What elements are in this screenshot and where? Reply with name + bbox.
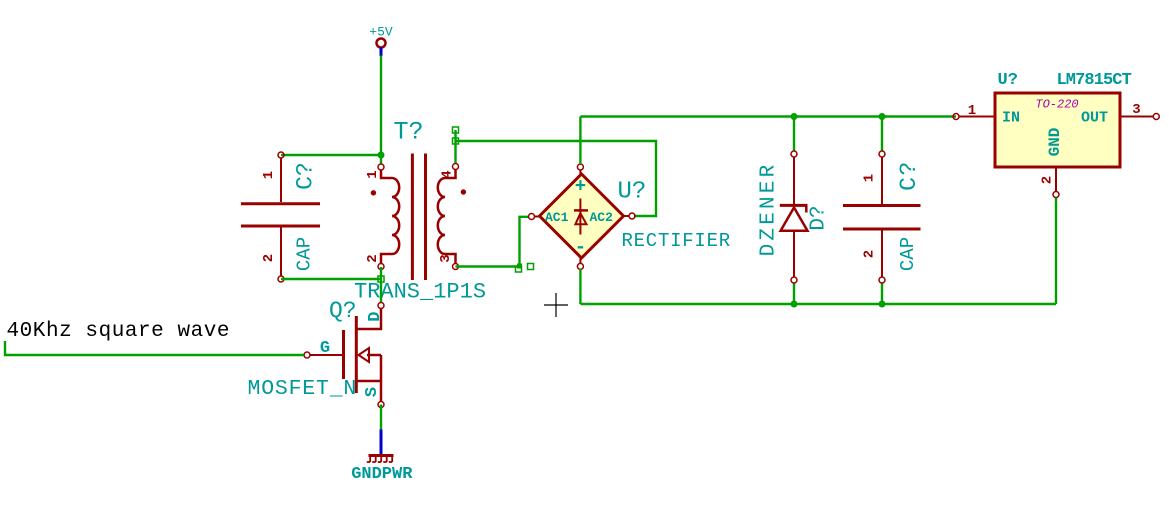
wire bottom rail bbox=[580, 303, 1056, 305]
wire top rail bbox=[580, 115, 956, 117]
wire end square at pin2 column bbox=[378, 276, 384, 282]
wire bottom rail to U2 GND bbox=[1055, 197, 1057, 304]
wire top rail to C2 bbox=[881, 117, 883, 152]
wire Q1 source to ground bbox=[380, 405, 382, 430]
svg-text:T?: T? bbox=[394, 118, 424, 147]
svg-text:3: 3 bbox=[1132, 102, 1140, 118]
wire rectifier - down to bottom rail bbox=[579, 269, 581, 304]
svg-text:2: 2 bbox=[1040, 176, 1056, 184]
svg-text:C?: C? bbox=[293, 162, 319, 190]
wire node A to C1 top bbox=[281, 154, 381, 156]
svg-text:TO-220: TO-220 bbox=[1035, 98, 1078, 112]
wire T1 pin3 to AC1 bbox=[456, 217, 529, 267]
wire top rail to D1 bbox=[793, 117, 795, 152]
svg-text:2: 2 bbox=[365, 254, 381, 262]
svg-text:1: 1 bbox=[261, 171, 277, 179]
wire end square below AC1 corner bbox=[516, 266, 522, 272]
svg-text:AC2: AC2 bbox=[590, 210, 614, 225]
svg-text:2: 2 bbox=[862, 250, 878, 258]
capacitor C1 bbox=[241, 152, 320, 282]
capacitor C2 bbox=[843, 151, 922, 283]
wire rectifier + up to top rail bbox=[579, 117, 581, 165]
svg-text:1: 1 bbox=[968, 103, 976, 119]
wire C2 to bottom rail bbox=[881, 283, 883, 304]
svg-text:LM7815CT: LM7815CT bbox=[1057, 71, 1132, 90]
svg-text:U?: U? bbox=[618, 179, 647, 206]
junction top rail / D1 bbox=[791, 113, 798, 120]
svg-text:D?: D? bbox=[808, 205, 831, 230]
junction bottom rail / C2 bbox=[879, 301, 886, 308]
svg-text:2: 2 bbox=[261, 254, 277, 262]
regulator U2 LM7815CT bbox=[953, 71, 1159, 198]
transformer T1 bbox=[354, 118, 486, 305]
svg-text:+5V: +5V bbox=[369, 25, 393, 40]
wire T1 pin4 to AC2 (top run) bbox=[456, 141, 657, 216]
svg-text:DZENER: DZENER bbox=[758, 162, 781, 257]
power flag +5V bbox=[369, 25, 393, 57]
svg-text:OUT: OUT bbox=[1081, 110, 1108, 127]
svg-text:RECTIFIER: RECTIFIER bbox=[622, 230, 731, 252]
svg-text:GNDPWR: GNDPWR bbox=[351, 465, 413, 484]
svg-text:-: - bbox=[575, 237, 586, 259]
svg-text:IN: IN bbox=[1002, 110, 1020, 127]
node A junction bbox=[378, 152, 385, 159]
svg-text:40Khz square wave: 40Khz square wave bbox=[7, 320, 231, 343]
svg-text:CAP: CAP bbox=[294, 237, 316, 271]
cursor crosshair bbox=[544, 293, 568, 317]
svg-text:TRANS_1P1S: TRANS_1P1S bbox=[354, 280, 486, 305]
transistor Q1 MOSFET_N bbox=[248, 298, 385, 408]
wire end square pin4 mid bbox=[453, 138, 459, 144]
svg-text:AC1: AC1 bbox=[545, 210, 569, 225]
svg-text:1: 1 bbox=[365, 170, 381, 178]
wire T1 pin2 to Q1 drain bbox=[380, 267, 382, 303]
svg-text:+: + bbox=[575, 176, 586, 198]
svg-text:4: 4 bbox=[440, 170, 456, 178]
wire D1 to bottom rail bbox=[793, 283, 795, 304]
zener diode D1 bbox=[758, 151, 831, 283]
wire input to Q1 gate bbox=[5, 341, 304, 355]
svg-text:MOSFET_N: MOSFET_N bbox=[248, 377, 358, 401]
svg-text:S: S bbox=[363, 387, 382, 397]
ground GNDPWR bbox=[351, 430, 413, 485]
wire +5V down to node A bbox=[380, 56, 382, 156]
svg-text:3: 3 bbox=[438, 254, 454, 262]
wire end square pin4 top bbox=[453, 127, 459, 133]
svg-text:CAP: CAP bbox=[897, 237, 919, 271]
svg-text:GND: GND bbox=[1046, 128, 1064, 157]
wire C1 bottom to T1 pin2 column bbox=[281, 278, 381, 280]
svg-text:G: G bbox=[320, 339, 330, 358]
svg-text:Q?: Q? bbox=[329, 298, 357, 324]
junction top rail / C2 bbox=[879, 113, 886, 120]
wire node A to T1 pin1 bbox=[380, 155, 382, 164]
svg-text:C?: C? bbox=[896, 160, 922, 191]
bridge rectifier U1 bbox=[529, 164, 731, 269]
wire end filled square at AC1 corner bbox=[517, 264, 522, 269]
svg-text:D: D bbox=[366, 312, 385, 322]
wire end square right of AC1 corner bbox=[528, 264, 534, 270]
wire T1 pin4 up bbox=[454, 130, 456, 163]
junction bottom rail / D1 bbox=[791, 301, 798, 308]
svg-text:U?: U? bbox=[998, 71, 1018, 90]
svg-text:1: 1 bbox=[862, 174, 878, 182]
